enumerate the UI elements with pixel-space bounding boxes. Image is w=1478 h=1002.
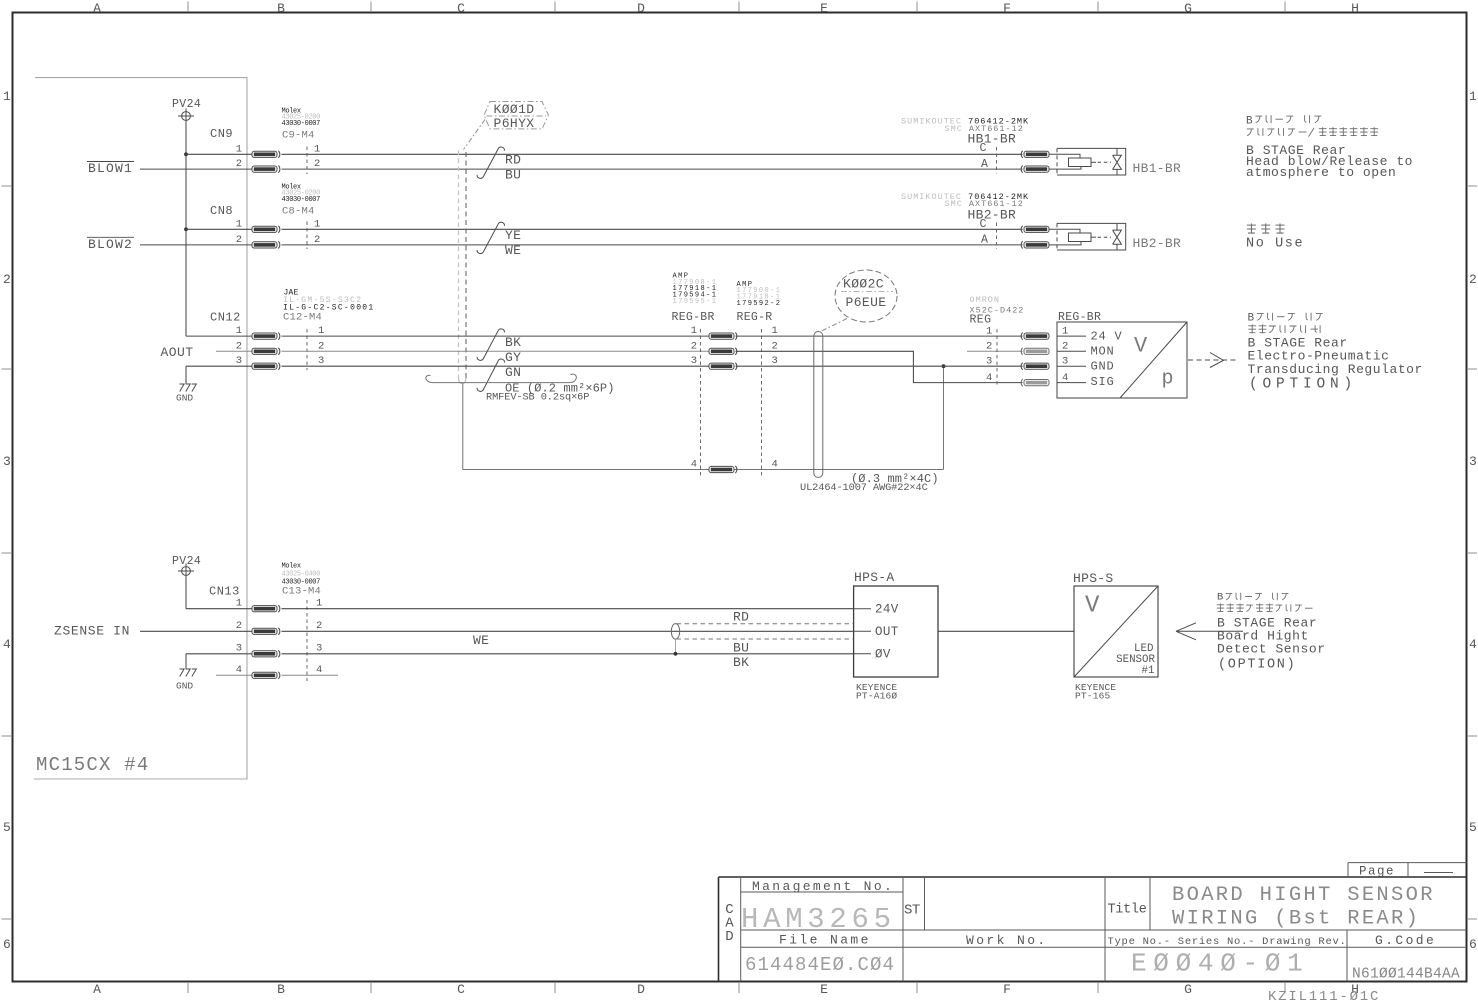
label CAD vertical [725, 902, 734, 945]
frame column letters bottom [93, 982, 1359, 997]
svg-text:Management No.: Management No. [752, 879, 894, 894]
svg-text:4: 4 [236, 664, 242, 676]
crimp contact CN12-2 [252, 348, 280, 355]
wire loop tie to 0V [675, 639, 677, 654]
svg-text:2: 2 [1469, 272, 1477, 287]
regulator internal pin numbers [1062, 325, 1068, 384]
cable K001D sheath dashed pair [459, 151, 467, 384]
svg-text:B: B [277, 1, 285, 16]
connector CN8 pin numbers left [236, 218, 242, 246]
wire CN8-1 PV24 to crimp [186, 228, 252, 230]
svg-text:43030-0007: 43030-0007 [282, 196, 321, 204]
wire C8-M4 pin2 to valve HB2 A [282, 244, 1023, 246]
valve HB1-BR part labels [901, 117, 1029, 134]
wire C9-M4 pin1 to valve HB1 C [282, 153, 1023, 155]
regulator pin names [1091, 330, 1123, 390]
svg-text:HB2-BR: HB2-BR [1133, 236, 1182, 251]
svg-text:Page: Page [1359, 864, 1395, 878]
svg-text:MC15CX #4: MC15CX #4 [36, 754, 149, 776]
svg-text:YE: YE [505, 228, 521, 243]
svg-text:4: 4 [772, 459, 778, 471]
svg-text:3: 3 [691, 355, 697, 367]
svg-text:BU: BU [733, 641, 749, 656]
connector C12-M4 mate line [306, 329, 308, 370]
svg-text:RD: RD [505, 153, 521, 168]
svg-text:A: A [981, 234, 988, 247]
svg-text:G: G [1184, 1, 1192, 16]
svg-text:2: 2 [236, 158, 242, 170]
svg-text:Title: Title [1108, 903, 1147, 918]
cable callout K001D text [494, 102, 535, 131]
svg-text:GND: GND [176, 681, 193, 692]
svg-text:B: B [1246, 116, 1253, 128]
svg-text:No Use: No Use [1246, 236, 1304, 251]
crimp contact CN12-1 [252, 333, 280, 340]
svg-text:BLOW2: BLOW2 [88, 237, 133, 252]
valve HB2-BR part labels [901, 192, 1029, 209]
connector CN12 pin numbers left [236, 325, 242, 367]
svg-text:HAM3265: HAM3265 [741, 903, 896, 936]
wire CN13-4 spare stub right [282, 674, 339, 676]
svg-text:24V: 24V [875, 603, 899, 617]
svg-text:KZIL111-Ø1C: KZIL111-Ø1C [1268, 989, 1380, 1002]
wire C8-M4 pin1 to valve HB2 C [282, 228, 1023, 230]
svg-text:3: 3 [236, 355, 242, 367]
valve HB2 body box [1057, 223, 1126, 250]
svg-text:4: 4 [986, 372, 992, 384]
frame column ticks top [188, 2, 1285, 13]
svg-text:C13-M4: C13-M4 [282, 586, 321, 598]
label KEYENCE PT-165 [1075, 682, 1116, 701]
connector C12-M4 pin numbers right [318, 325, 324, 367]
svg-text:1: 1 [772, 325, 778, 337]
svg-text:SIG: SIG [1091, 375, 1115, 389]
label AMP REG-BR part numbers [673, 272, 718, 306]
svg-text:6: 6 [1469, 937, 1477, 952]
svg-text:179595-1: 179595-1 [673, 298, 718, 306]
svg-text:D: D [637, 1, 645, 16]
power net PV24 (lower) [172, 555, 201, 579]
svg-text:GND: GND [1091, 360, 1115, 374]
note jp not used [1247, 224, 1285, 234]
svg-text:B: B [1248, 313, 1255, 325]
cable callout K002C leader [821, 319, 848, 332]
svg-text:C: C [980, 218, 987, 231]
valve HB2 pilot dashed link [1092, 236, 1097, 238]
svg-text:2: 2 [236, 620, 242, 632]
svg-text:PV24: PV24 [172, 98, 201, 111]
cable callout K001D leader [464, 120, 486, 150]
svg-text:V: V [1134, 334, 1148, 359]
svg-text:AOUT: AOUT [161, 345, 194, 360]
valve HB2 suppressor [1113, 224, 1122, 250]
svg-text:1: 1 [691, 325, 697, 337]
svg-text:C: C [457, 1, 465, 16]
svg-text:E: E [820, 1, 828, 16]
connector REG-R pin numbers [772, 325, 778, 471]
svg-text:1: 1 [1062, 325, 1068, 337]
svg-text:C9-M4: C9-M4 [282, 130, 315, 142]
cable callout K001D hexagon balloon [484, 102, 549, 129]
regulator pin stubs [1057, 336, 1086, 383]
svg-text:24 V: 24 V [1091, 330, 1123, 344]
connector REG-BR pin numbers [691, 325, 697, 471]
svg-text:Transducing Regulator: Transducing Regulator [1248, 362, 1423, 377]
crimp contact REG pin2 [1021, 348, 1049, 355]
title block inner lines [741, 877, 1467, 982]
svg-text:A: A [93, 1, 101, 16]
wire C9-M4 pin2 to valve HB1 A [282, 168, 1023, 170]
connector REG mate line [996, 329, 998, 386]
svg-text:BU: BU [505, 168, 521, 183]
crimp contact HB1 C [1021, 151, 1049, 158]
svg-text:2: 2 [314, 158, 320, 170]
sensor LED SENSOR #1 text [1116, 643, 1155, 677]
crimp contact CN8-2 [252, 241, 280, 248]
title block outline [719, 877, 1467, 982]
amplifier pin stubs [854, 609, 871, 654]
regulator internal diagonal [1120, 322, 1187, 398]
svg-text:BK: BK [733, 655, 749, 670]
svg-text:1: 1 [236, 598, 242, 610]
sensor head twisted pair loop [671, 624, 679, 640]
crimp contact CN13-4 [252, 672, 280, 679]
crimp contact REG pin1 [1021, 333, 1049, 340]
svg-text:1: 1 [314, 218, 320, 230]
svg-text:BK: BK [505, 335, 521, 350]
node junction PV24/CN8-1 [184, 227, 188, 231]
ground GND stem at CN13 [185, 654, 187, 669]
svg-text:1: 1 [1469, 89, 1477, 104]
ground GND stem at CN12 [185, 366, 187, 383]
svg-text:PV24: PV24 [172, 555, 201, 568]
note B STAGE Rear / head blow text [1246, 143, 1413, 180]
net BLOW1 label with overline [87, 161, 134, 176]
svg-text:(OPTION): (OPTION) [1249, 376, 1357, 392]
connector C8-M4 mate line [306, 222, 308, 250]
svg-text:1: 1 [236, 325, 242, 337]
wire color slash BK/GY [477, 329, 504, 360]
svg-text:WE: WE [473, 633, 489, 648]
svg-text:V: V [1085, 593, 1100, 620]
sensor head pair RD dashed [677, 623, 854, 625]
cable callout K002C text [843, 276, 887, 310]
svg-text:3: 3 [3, 454, 11, 469]
wire C12-M4 pin2 to REG-BR pin2 [282, 350, 710, 352]
svg-text:D: D [637, 982, 645, 997]
svg-text:CN12: CN12 [210, 310, 241, 324]
note jp head blow / release (line2) [1247, 127, 1378, 136]
svg-text:3: 3 [236, 643, 242, 655]
MC15CX board outline [34, 78, 247, 779]
svg-text:1: 1 [314, 143, 320, 155]
ground symbol CN13 [180, 669, 197, 677]
svg-text:2: 2 [314, 234, 320, 246]
wire C13-M4 pin1 to HPS-A 24V [282, 608, 854, 610]
svg-text:CN9: CN9 [210, 127, 233, 141]
svg-text:179592-2: 179592-2 [737, 300, 782, 308]
connector C13-M4 mate line [306, 600, 308, 681]
svg-text:43025-0400: 43025-0400 [282, 571, 321, 579]
svg-text:2: 2 [986, 341, 992, 353]
svg-text:WIRING (Bst REAR): WIRING (Bst REAR) [1172, 908, 1420, 931]
label OMRON REG part [970, 295, 1025, 315]
wire PV24 stem to CN13-1 [185, 579, 187, 609]
MC15CX #4 board name [36, 754, 149, 776]
connector CN13 pin numbers left [236, 598, 242, 677]
node junction loop/0V [674, 652, 678, 656]
wire shield drain drop to pin4 [463, 384, 944, 470]
crimp contact REG-BR pin4 [709, 466, 737, 473]
wire color slash GN/OE [477, 359, 504, 391]
svg-text:RD: RD [733, 609, 749, 624]
svg-text:3: 3 [316, 643, 322, 655]
wire BLOW1 to crimp [140, 168, 252, 170]
svg-text:3: 3 [986, 355, 992, 367]
wire REG pin2 MON stub [967, 350, 1023, 352]
svg-text:B: B [277, 982, 285, 997]
wire CN9-1 PV24 to crimp [186, 153, 252, 155]
svg-text:CN13: CN13 [209, 584, 240, 598]
svg-text:E: E [820, 982, 828, 997]
svg-text:4: 4 [1469, 637, 1477, 652]
connector C9-M4 mate line [306, 147, 308, 175]
label AMP REG-R part numbers [737, 281, 782, 308]
svg-text:A: A [981, 158, 988, 171]
svg-text:1: 1 [316, 598, 322, 610]
label Molex C13-M4 part numbers [282, 563, 321, 587]
svg-text:GND: GND [176, 393, 193, 404]
svg-text:MON: MON [1091, 345, 1115, 359]
node junction PV24/CN9-1 [184, 152, 188, 156]
svg-text:atmosphere to open: atmosphere to open [1246, 165, 1396, 180]
crimp contact CN12-3 [252, 363, 280, 370]
frame column ticks bottom [188, 982, 1285, 993]
svg-text:2: 2 [691, 340, 697, 352]
svg-text:1: 1 [318, 325, 324, 337]
svg-text:GY: GY [505, 350, 521, 365]
connector C8-M4 pin numbers right [314, 218, 320, 246]
svg-text:2: 2 [236, 340, 242, 352]
svg-text:HPS-S: HPS-S [1073, 571, 1114, 586]
svg-text:F: F [1003, 1, 1011, 16]
crimp contact HB2 C [1021, 226, 1049, 233]
svg-text:F: F [1003, 982, 1011, 997]
svg-text:C12-M4: C12-M4 [283, 312, 322, 324]
valve HB1 suppressor [1113, 149, 1122, 175]
svg-text:2: 2 [3, 272, 11, 287]
svg-text:1: 1 [236, 218, 242, 230]
note B STAGE Rear sensor text [1217, 615, 1326, 656]
svg-text:A: A [93, 982, 101, 997]
svg-text:4: 4 [691, 459, 697, 471]
valve HB1 mate line [996, 147, 998, 174]
crimp contact CN13-1 [252, 605, 280, 612]
svg-text:P6EUE: P6EUE [846, 295, 887, 310]
svg-text:HB2-BR: HB2-BR [968, 208, 1017, 223]
svg-text:C8-M4: C8-M4 [282, 206, 315, 218]
wire PV24 bus vertical to CN12 pin1 [185, 124, 187, 337]
svg-text:OMRON: OMRON [970, 295, 1001, 305]
svg-text:CN8: CN8 [210, 204, 233, 218]
svg-text:2: 2 [772, 340, 778, 352]
power net PV24 (top) [172, 98, 201, 124]
svg-text:HB1-BR: HB1-BR [968, 132, 1017, 147]
crimp contact REG-BR pin1 [709, 333, 737, 340]
amplifier pin names [875, 603, 899, 662]
frame row ticks right [1467, 186, 1477, 919]
connector REG pin numbers [986, 325, 992, 384]
svg-text:Work No.: Work No. [966, 933, 1048, 948]
svg-text:4: 4 [3, 637, 11, 652]
svg-text:HPS-A: HPS-A [854, 570, 895, 585]
ground symbol CN12 [180, 384, 197, 392]
svg-text:C: C [457, 982, 465, 997]
connector C9-M4 pin numbers right [314, 143, 320, 170]
wire BLOW2 to crimp [140, 244, 252, 246]
sensor internal diagonal [1074, 586, 1158, 677]
regulator REG-BR device box [1057, 322, 1187, 398]
frame row ticks left [2, 186, 13, 919]
valve HB2 coil [1049, 229, 1091, 245]
crimp contact REG-BR pin3 [709, 363, 737, 370]
wire CN12-3 from GND [186, 365, 252, 367]
svg-text:ST: ST [904, 903, 920, 919]
amplifier HPS-A box [854, 586, 938, 677]
page box [1348, 863, 1467, 877]
wire CN13-4 spare stub left [216, 674, 252, 676]
wire HPS-A OUT to HPS-S [938, 630, 1074, 632]
note jp B stage rear (REG line1) [1248, 313, 1323, 325]
cable K002C sheath oval [814, 332, 823, 478]
svg-text:B: B [1217, 592, 1223, 604]
svg-text:3: 3 [772, 355, 778, 367]
beam input arrow [1176, 623, 1243, 640]
crimp contact REG pin3 [1021, 363, 1049, 370]
wire CN13-1 PV24 to crimp [186, 608, 252, 610]
valve HB1 body box [1057, 148, 1126, 175]
svg-text:C: C [980, 142, 987, 155]
connector CN9 pin numbers left [236, 143, 242, 170]
wire color slash RD/BU [477, 147, 504, 178]
svg-text:EØØ4Ø-Ø1: EØØ4Ø-Ø1 [1131, 948, 1309, 978]
sensor HPS-S box [1074, 586, 1158, 677]
svg-text:43030-0007: 43030-0007 [282, 120, 321, 128]
svg-text:PT-165: PT-165 [1075, 690, 1111, 701]
note jp board height detect sensor (line2) [1217, 604, 1313, 612]
svg-text:3: 3 [318, 355, 324, 367]
connector REG-BR mate line [700, 329, 702, 478]
wire color slash YE/WE [477, 222, 504, 253]
svg-text:ØV: ØV [875, 648, 891, 662]
svg-text:UL2464-1007 AWG#22×4C: UL2464-1007 AWG#22×4C [800, 482, 928, 494]
valve HB1 pilot dashed link [1092, 161, 1097, 163]
frame row numbers right [1469, 89, 1477, 952]
wire C13-M4 pin2 to HPS-A OUT [282, 630, 854, 632]
svg-text:3: 3 [1469, 454, 1477, 469]
svg-text:WE: WE [505, 243, 521, 258]
net BLOW2 label with overline [87, 237, 134, 252]
note jp electro-pneumatic regulator (REG line2) [1248, 324, 1320, 333]
frame column letters top [93, 1, 1359, 16]
svg-text:5: 5 [3, 820, 11, 835]
wire C13-M4 pin3 to HPS-A 0V [282, 653, 854, 655]
connector REG-R mate line [761, 329, 763, 478]
svg-text:(OPTION): (OPTION) [1218, 658, 1296, 673]
wire ZSENSE to crimp [140, 630, 252, 632]
sensor head pair BU dashed [677, 638, 854, 640]
connector C13-M4 pin numbers right [316, 598, 322, 677]
svg-text:ZSENSE IN: ZSENSE IN [54, 623, 130, 638]
crimp contact CN8-1 [252, 226, 280, 233]
svg-text:1: 1 [3, 89, 11, 104]
wire AOUT to crimp [216, 350, 252, 352]
wire C12-M4 pin1 to REG-BR pin1 [282, 335, 710, 337]
svg-text:H: H [1351, 1, 1359, 16]
pneumatic output dashed arrow [1188, 353, 1236, 368]
svg-text:2: 2 [236, 234, 242, 246]
crimp contact REG pin4 [1021, 379, 1049, 386]
svg-text:2: 2 [316, 620, 322, 632]
svg-text:SENSOR: SENSOR [1116, 654, 1155, 666]
note B STAGE Rear regulator text [1248, 336, 1423, 377]
crimp contact CN9-1 [252, 151, 280, 158]
svg-text:1: 1 [986, 325, 992, 337]
crimp contact HB2 A [1021, 241, 1049, 248]
crimp contact CN13-3 [252, 650, 280, 657]
svg-text:REG-BR: REG-BR [672, 311, 715, 324]
wire REG-R pin2 to REG pin4 (SIG) [736, 351, 1023, 382]
svg-text:N61ØØ144B4AA: N61ØØ144B4AA [1352, 967, 1460, 983]
svg-text:G.Code: G.Code [1375, 933, 1436, 948]
crimp contact CN13-2 [252, 628, 280, 635]
node junction shield/GND [942, 364, 946, 368]
crimp contact REG-BR pin2 [709, 348, 737, 355]
svg-text:HB1-BR: HB1-BR [1133, 161, 1182, 176]
cable callout K002C divider [841, 291, 893, 293]
note jp B stage rear (sensor line1) [1217, 592, 1288, 604]
label KEYENCE PT-A160 [856, 682, 897, 701]
cable callout K002C balloon [835, 270, 897, 322]
svg-text:BLOW1: BLOW1 [88, 161, 133, 176]
svg-text:REG-R: REG-R [737, 311, 773, 324]
svg-text:D: D [725, 929, 733, 945]
label Molex C8-M4 part numbers [282, 184, 321, 204]
note jp B stage rear head blow (line1) [1246, 115, 1321, 127]
shield drain wire with hooks [426, 374, 576, 383]
svg-text:GN: GN [505, 365, 521, 380]
wire C12-M4 pin3 to REG-BR pin3 [282, 365, 710, 367]
crimp contact HB1 A [1021, 166, 1049, 173]
frame row numbers left [3, 89, 11, 952]
svg-text:5: 5 [1469, 820, 1477, 835]
svg-text:1: 1 [236, 143, 242, 155]
svg-text:Detect Sensor: Detect Sensor [1217, 642, 1326, 657]
label Molex C9-M4 part numbers [282, 108, 321, 128]
svg-text:4: 4 [316, 664, 322, 676]
svg-text:6: 6 [3, 937, 11, 952]
svg-text:2: 2 [1062, 341, 1068, 353]
svg-text:p: p [1162, 368, 1174, 391]
svg-text:3: 3 [1062, 355, 1068, 367]
svg-text:PT-A16Ø: PT-A16Ø [856, 690, 897, 701]
crimp contact CN9-2 [252, 166, 280, 173]
valve HB2 mate line [996, 223, 998, 250]
svg-text:2: 2 [318, 340, 324, 352]
svg-text:KØØ2C: KØØ2C [843, 276, 884, 291]
svg-text:G: G [1184, 982, 1192, 997]
svg-text:4: 4 [1062, 372, 1068, 384]
